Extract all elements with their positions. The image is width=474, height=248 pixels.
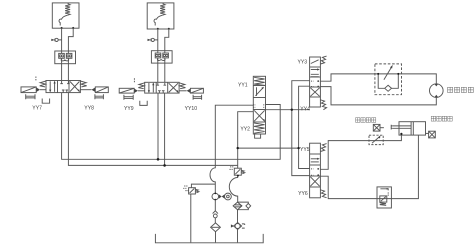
wire unloader to tank bbox=[190, 194, 192, 242]
unloading relief valve PV2 bbox=[234, 168, 241, 175]
hydraulic cylinder bbox=[399, 122, 426, 135]
pilot dash above YY9 solenoid bbox=[133, 78, 135, 83]
wire B1 right leg with jog bbox=[68, 28, 73, 51]
svg-text:YY5: YY5 bbox=[300, 147, 310, 153]
wire unloader branch top bbox=[191, 184, 215, 188]
terminal bracket under YY8 solenoid bbox=[95, 94, 104, 99]
solenoid YY7 bbox=[21, 87, 36, 93]
unloading relief valve PV1 bbox=[189, 188, 196, 194]
arrow cell upper bbox=[256, 88, 264, 96]
spring bottom-right YY6 bbox=[320, 190, 326, 198]
centre cell port dots bbox=[317, 168, 319, 170]
wire node A to node B horizontal bbox=[238, 147, 299, 149]
terminal bracket under YY7 solenoid bbox=[26, 94, 35, 99]
limit switch S2 bbox=[429, 131, 436, 138]
tank symbol under valve YY7/YY8 bbox=[42, 99, 49, 104]
gauge port M2 bbox=[151, 39, 158, 42]
electric motor M bbox=[225, 193, 232, 200]
spring bottom-right YY4 bbox=[320, 100, 326, 110]
spring top-right YY3 bbox=[320, 56, 326, 64]
node flow-control outlet bbox=[397, 73, 399, 75]
wire YY5 right lower port to relief box to cylinder cap-side port bbox=[320, 135, 418, 199]
svg-text:YY4: YY4 bbox=[300, 106, 310, 112]
svg-text:YY7: YY7 bbox=[32, 105, 42, 111]
svg-text:YY3: YY3 bbox=[298, 59, 308, 65]
svg-text:YY8: YY8 bbox=[84, 105, 94, 111]
cross pilot squiggle V1 bbox=[61, 59, 69, 61]
spring top-right YY5 bbox=[320, 144, 326, 152]
centre cell port dots bbox=[317, 80, 319, 82]
arrow cell upper bbox=[311, 158, 318, 160]
hydraulic motor bbox=[430, 84, 444, 98]
spring inside B2 bbox=[160, 4, 165, 16]
crossed cell bbox=[310, 88, 319, 97]
node B bbox=[297, 147, 299, 149]
wire B2 left leg down to lock V2 bbox=[157, 29, 159, 51]
label limit switch left (行程开关) bbox=[356, 118, 376, 123]
node A bbox=[237, 147, 239, 149]
coupling bbox=[219, 194, 225, 198]
relief valve box RV on cap-side line bbox=[377, 187, 391, 208]
vertical valve body YY5/YY6 bbox=[310, 143, 321, 198]
pilot operated check valve block V2 (hydraulic lock) bbox=[151, 51, 172, 63]
wire YY5 right upper port to throttle to cylinder rod-side port bbox=[320, 134, 401, 169]
suction filter F1 bbox=[211, 223, 221, 232]
spring right YY8 bbox=[80, 81, 86, 87]
wire YY1 right lower port to YY4 bbox=[266, 109, 310, 111]
wire pump suction down bbox=[214, 200, 216, 211]
limit switch S1 bbox=[373, 124, 380, 131]
solenoid YY8 bbox=[95, 87, 108, 93]
wire YY9 valve B-port down to lower bus bbox=[164, 93, 166, 165]
svg-text:YY9: YY9 bbox=[124, 106, 134, 112]
counterbalance unit box B1 bbox=[52, 3, 79, 28]
solenoid YY9 bbox=[119, 88, 134, 93]
node junction YY10 line on lower bus bbox=[163, 164, 166, 167]
pilot curve inside B1 bbox=[59, 15, 67, 25]
wire YY1 valve left lower port down to node A bbox=[238, 112, 254, 166]
solenoid YY10 bbox=[190, 88, 203, 93]
bottom spring YY2 bbox=[254, 123, 265, 133]
flow control valve with bypass check (dashed enclosure) bbox=[375, 64, 402, 95]
spring right YY10 bbox=[179, 83, 185, 89]
svg-text:YY6: YY6 bbox=[298, 191, 308, 197]
return filter F2 with bypass check bbox=[233, 202, 242, 210]
pilot operated check valve block V1 (hydraulic lock) bbox=[55, 51, 76, 64]
crossed cell lower bbox=[254, 110, 264, 121]
svg-text:YY10: YY10 bbox=[185, 106, 198, 112]
wire vertical from YY3 left lower port down through node B to YY5 left upper port bbox=[299, 86, 310, 168]
hydraulic pump P bbox=[212, 193, 219, 200]
spring left YY9 bbox=[138, 83, 144, 89]
spring left YY7 bbox=[40, 81, 46, 87]
wire B1 left leg down to lock V1 bbox=[61, 28, 63, 51]
tank symbol under valve YY9/YY10 bbox=[140, 101, 147, 106]
wire YY9 valve A-port down to upper bus bbox=[157, 93, 159, 159]
wire pump pressure riser to YY1 valve P port with crossing hop bbox=[210, 105, 253, 193]
wire B2 right leg with jog bbox=[165, 29, 169, 51]
wire YY3 right upper port to flow control to hydraulic motor bbox=[320, 74, 436, 84]
pilot curve inside B2 bbox=[154, 15, 162, 25]
cross pilot squiggle V2 bbox=[157, 58, 165, 60]
vertical valve body YY1/YY2 bbox=[253, 76, 265, 134]
crossed arrows right cell bbox=[70, 82, 79, 92]
node flow-control inlet bbox=[377, 73, 379, 75]
node junction YY9 line on upper bus bbox=[157, 158, 160, 161]
node on YY4 feed wire bbox=[291, 109, 293, 111]
oil tank bbox=[155, 234, 263, 243]
arrow cell 1 bbox=[311, 60, 319, 64]
check valve above suction filter bbox=[213, 211, 218, 214]
tank symbol under YY1/YY2 valve bbox=[255, 134, 261, 138]
parallel arrows left cell bbox=[49, 81, 51, 91]
vertical valve body YY3/YY4 bbox=[310, 57, 321, 107]
directional valve body YY7/YY8 bbox=[46, 81, 80, 93]
label limit switch right (行程开关) bbox=[431, 116, 452, 121]
directional valve body YY9/YY10 bbox=[145, 82, 179, 93]
cooler / back pressure check bbox=[234, 223, 242, 230]
label hydraulic motor (液压马达) bbox=[448, 87, 474, 92]
wire hydraulic motor bottom return to YY3 right lower port bbox=[320, 87, 436, 105]
crossed cell lower bbox=[310, 177, 319, 186]
wire lower bus from YY8 side to YY2 riser bbox=[68, 93, 237, 166]
pilot dash above YY7 solenoid bbox=[35, 77, 37, 82]
closed centre marks middle cell bbox=[157, 83, 167, 85]
centre cell port marks bbox=[253, 105, 265, 107]
gauge port M1 bbox=[55, 39, 62, 42]
labels for solenoids and valves bbox=[32, 59, 310, 197]
spring inside B1 bbox=[65, 4, 70, 16]
svg-text:YY2: YY2 bbox=[240, 127, 250, 133]
node cylinder rod-side port bbox=[400, 133, 402, 135]
counterbalance unit box B2 bbox=[147, 3, 174, 29]
terminal bracket under YY9 solenoid bbox=[124, 95, 133, 100]
closed centre marks middle cell bbox=[60, 81, 69, 84]
wire upper bus from YY7 valve to YY1 valve riser bbox=[62, 93, 281, 160]
throttle valve (dashed) on rod-side line bbox=[369, 135, 383, 144]
top spring YY1 bbox=[254, 77, 265, 85]
terminal bracket under YY10 solenoid bbox=[193, 95, 202, 100]
wire vertical from YY3 left upper port down to YY6 left lower port bbox=[292, 81, 310, 176]
svg-text:YY1: YY1 bbox=[238, 82, 248, 88]
arrow cell 2 bbox=[311, 69, 318, 71]
crossed arrows right cell bbox=[169, 83, 178, 92]
parallel arrows left cell bbox=[148, 83, 150, 92]
wire return filter down to cooler and tank bbox=[237, 210, 239, 223]
wire PV2 branch node A down to filter group with hop bbox=[229, 165, 237, 202]
